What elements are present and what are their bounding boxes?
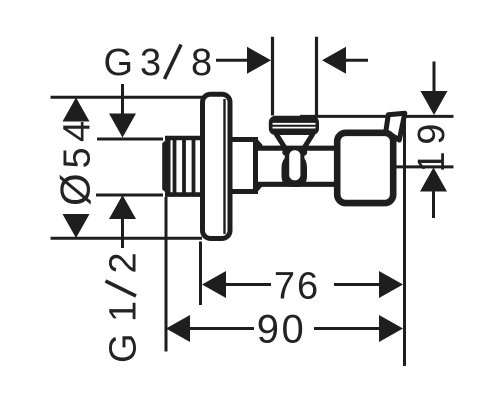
flange disc	[203, 94, 231, 238]
arrow down thread top	[109, 114, 136, 138]
nipple bottom edge	[165, 192, 203, 197]
svg-text:90: 90	[257, 307, 307, 351]
thread line 2	[182, 140, 186, 193]
arrow left toward cap right extension	[322, 47, 346, 74]
arrow up flange top	[63, 98, 90, 122]
arrow right toward cap left extension	[247, 47, 271, 74]
keyhole ear right	[300, 149, 307, 156]
90 arrow right	[379, 315, 403, 342]
valve: threaded nipple G1/2 left face	[162, 136, 170, 197]
76 line right	[334, 283, 381, 286]
bonnet funnel left edge	[277, 135, 287, 151]
76 line left	[224, 283, 271, 286]
90 line right	[314, 327, 381, 330]
nipple top edge	[165, 136, 203, 141]
G 1/2 lower dimension tail	[121, 217, 124, 248]
svg-text:76: 76	[274, 265, 320, 307]
extension line right (76/90)	[403, 117, 406, 366]
19 upper dimension tail	[433, 62, 436, 95]
keyhole ear left	[282, 149, 289, 156]
body tube bottom edge	[256, 182, 336, 187]
extension line thread bottom	[96, 194, 163, 197]
body tube top edge	[256, 146, 336, 151]
extension line cap right	[315, 37, 318, 116]
flange inner edge line	[223, 99, 225, 234]
body step vertical	[253, 137, 258, 193]
leader line from G 3/8	[216, 59, 250, 62]
step chamfer bottom	[256, 185, 261, 191]
extension line axis right	[397, 165, 454, 168]
svg-text:G12: G12	[103, 252, 145, 363]
extension line cap left	[271, 37, 274, 116]
extension line below flange (76)	[199, 242, 202, 306]
19 lower dimension tail	[432, 190, 435, 219]
slash of G 1/2	[106, 281, 137, 296]
extension line thread top	[97, 138, 163, 141]
keyhole white slot	[289, 150, 300, 180]
svg-text:Ø54: Ø54	[52, 121, 99, 206]
arrow up thread bottom	[109, 195, 136, 219]
svg-text:G38: G38	[104, 42, 213, 84]
slash of G 3/8	[165, 45, 182, 80]
step chamfer top	[256, 141, 261, 147]
90 arrow left	[166, 315, 190, 342]
76 arrow left	[202, 271, 226, 298]
body section behind flange	[229, 137, 258, 142]
thread line 1	[173, 140, 177, 193]
tail of right arrow	[344, 59, 368, 62]
76 arrow right	[379, 271, 403, 298]
cap stripe 2	[273, 127, 316, 129]
extension line below nipple (90)	[165, 197, 168, 352]
cap stripe 1	[273, 123, 316, 125]
arrow up axis	[420, 168, 447, 192]
arrow down handle top	[421, 91, 448, 115]
valve stem keyhole	[282, 147, 308, 187]
G 1/2 upper dimension tail	[121, 84, 124, 117]
extension line flange bottom	[51, 237, 203, 240]
bonnet funnel right edge	[303, 135, 313, 151]
knurled cap	[269, 116, 319, 135]
thread line 3	[192, 140, 196, 193]
handle square	[337, 133, 393, 203]
arrow down flange bottom	[63, 214, 90, 238]
handle lever	[386, 113, 405, 140]
extension line handle top	[300, 115, 454, 118]
90 line left	[188, 327, 254, 330]
extension line flange top	[51, 96, 203, 99]
